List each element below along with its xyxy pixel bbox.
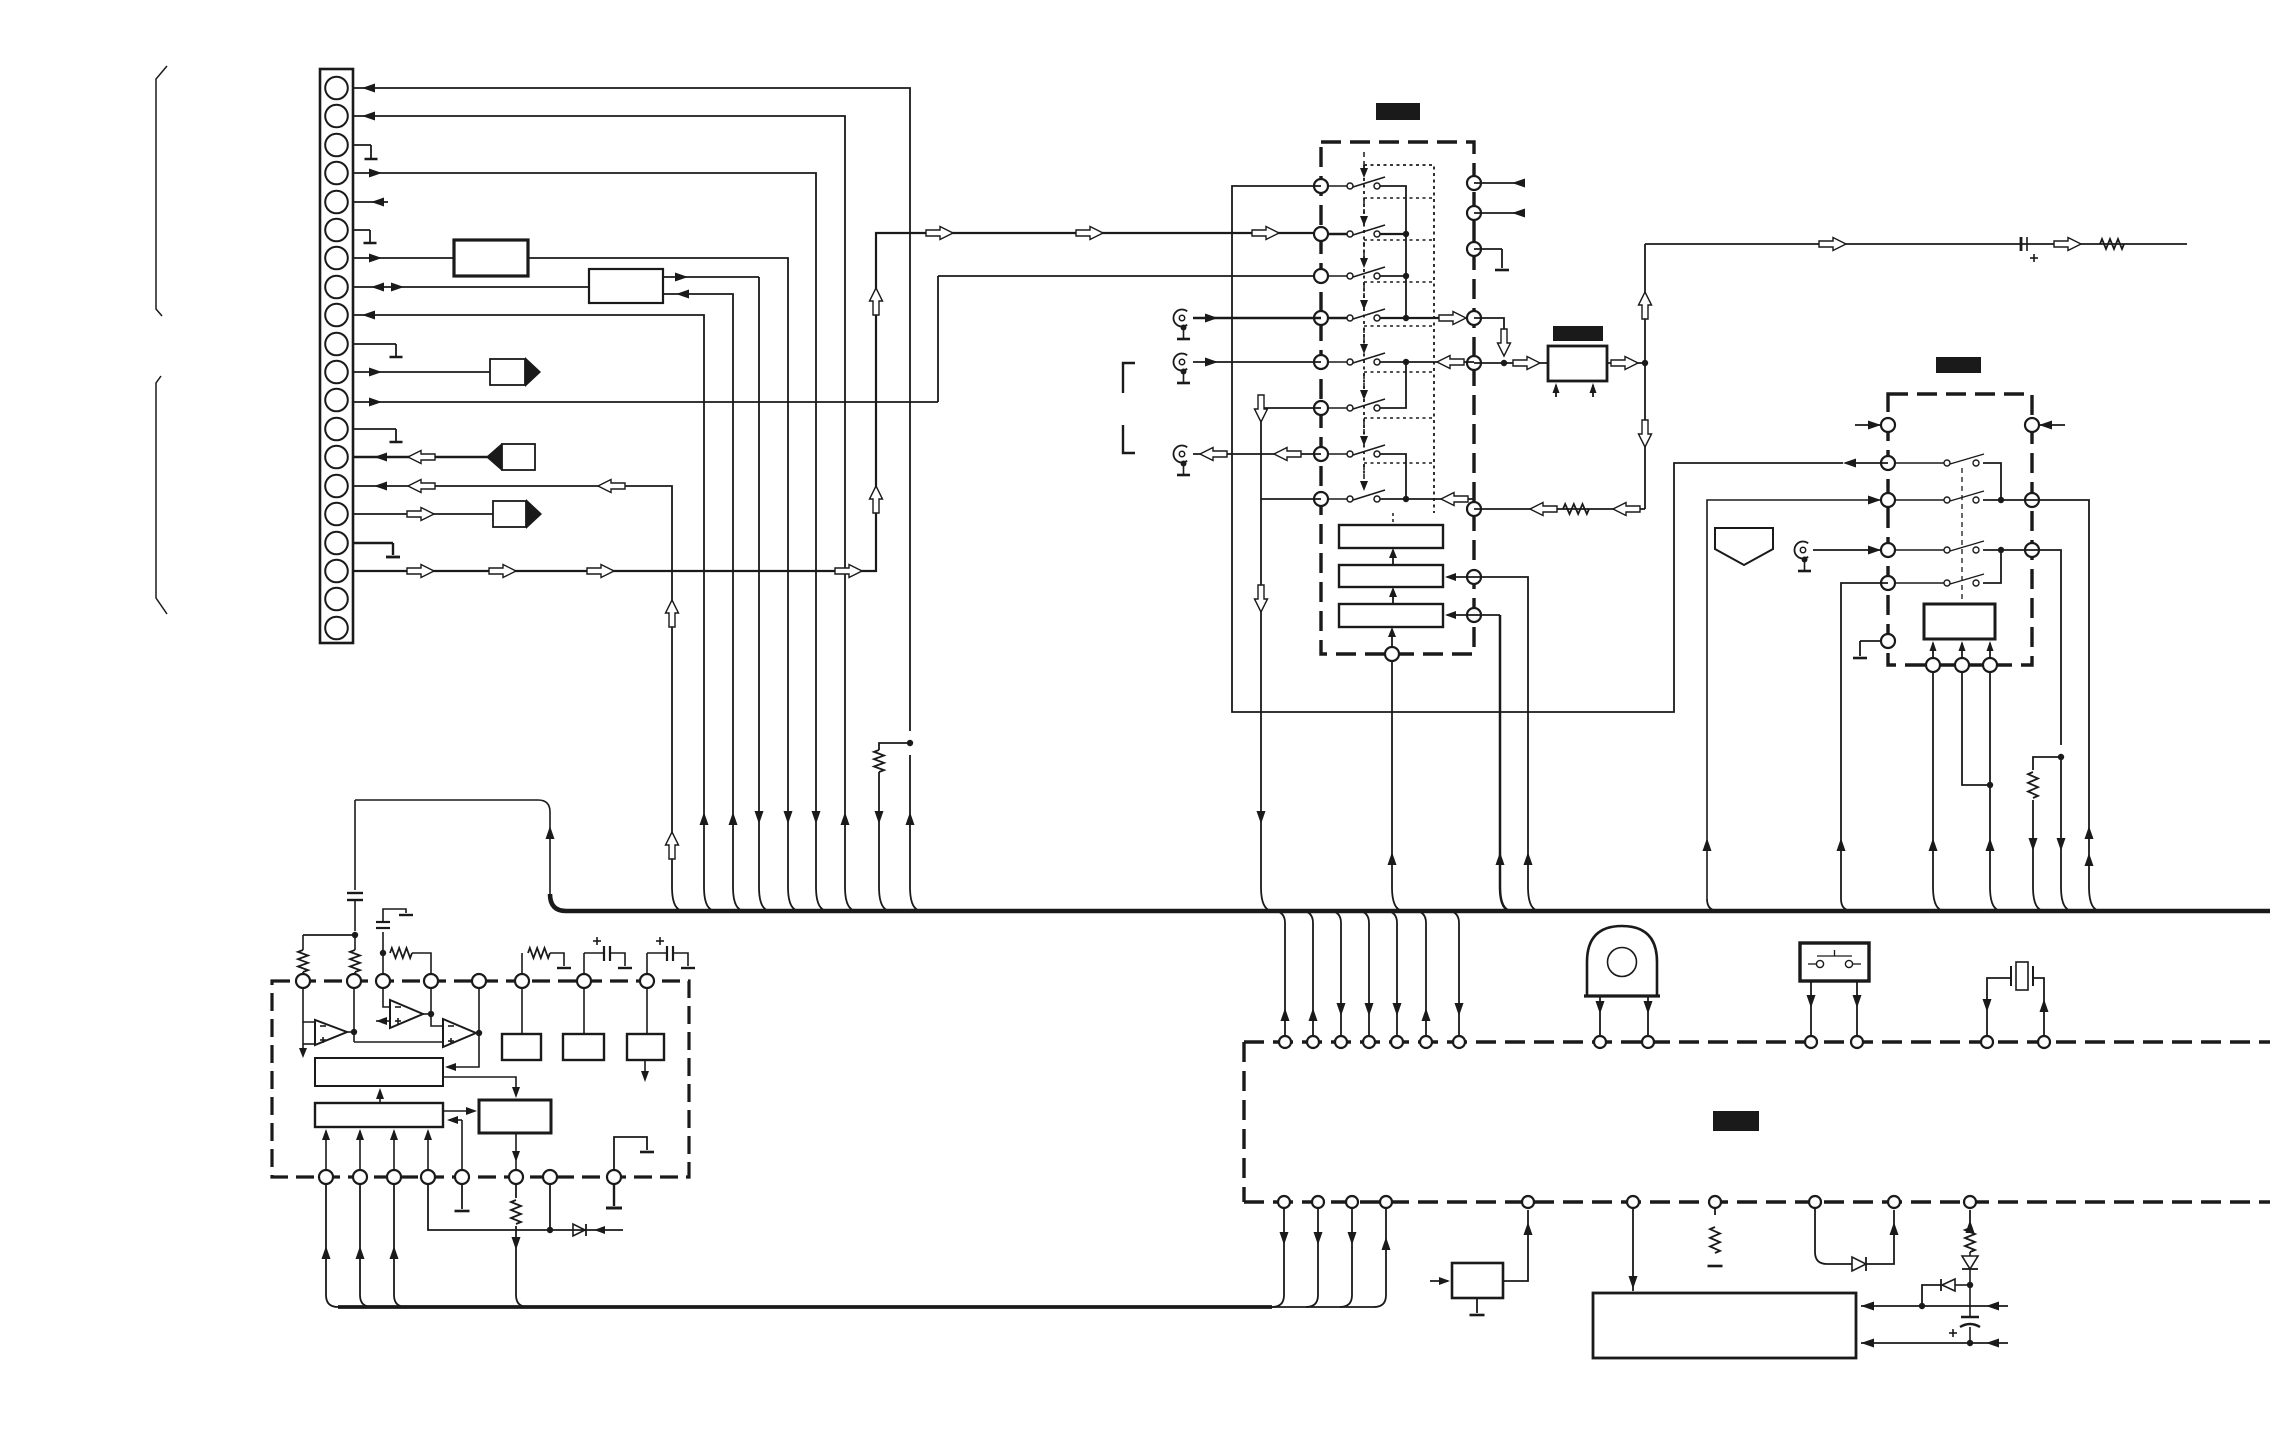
- wire fb to F2: [449, 1119, 462, 1121]
- switch S5 output: [1380, 361, 1406, 363]
- cap C405: [646, 953, 648, 974]
- wire pin4 to bus: [353, 173, 828, 911]
- arrow pin17 to B3: [1391, 630, 1393, 647]
- riser x1645: [1644, 244, 1646, 509]
- connector CN101 pin 9: [325, 304, 348, 327]
- IC201 left pin 3: [1314, 269, 1328, 283]
- control rung (dotted): [1364, 239, 1434, 241]
- switch control arrow (dashed): [1363, 374, 1365, 392]
- buffer box A1: [454, 240, 528, 276]
- node R4: [1987, 782, 1993, 788]
- switch S7 output: [1380, 454, 1406, 499]
- switch control arrow (dashed): [1363, 465, 1365, 483]
- zener D402: [1969, 1252, 1971, 1256]
- node N2: [1642, 360, 1648, 366]
- MCU top pin x1459: [1453, 1036, 1465, 1048]
- connector CN101 pin 3: [325, 134, 348, 157]
- node OP1 out: [351, 1029, 357, 1035]
- MCU top pin x1313: [1307, 1036, 1319, 1048]
- wire row583 feed: [1841, 583, 1888, 899]
- DCDC ctrl arrows: [1555, 385, 1557, 397]
- wire IC401 b6: [515, 1184, 517, 1198]
- IC301 control box: [1924, 604, 1995, 639]
- wire pin8 bidir: [353, 286, 589, 288]
- MCU bottom pin x1815: [1809, 1196, 1821, 1208]
- IC201 left pin 5: [1314, 355, 1328, 369]
- IC401 box G2: [563, 1034, 604, 1060]
- reset box U401: [1452, 1263, 1503, 1298]
- connector CN101 pin 11: [325, 361, 348, 384]
- IC201 left pin 1: [1314, 179, 1328, 193]
- wire IC401 b1: [326, 1184, 338, 1307]
- IC201 switch S7: [1328, 453, 1347, 455]
- wire R3 down: [2061, 757, 2073, 911]
- switch control arrow (dashed): [1363, 284, 1365, 302]
- wire MCU b4: [1374, 1208, 1386, 1307]
- arrow into top pin R: [2039, 424, 2065, 426]
- bus drop to MCU pin x1459: [1447, 911, 1459, 1035]
- gnd IC401 b8: [613, 1184, 615, 1206]
- IC301 switch row 463: [1895, 462, 1944, 464]
- diode D404: [573, 1224, 585, 1236]
- RCA jack J201: [1173, 310, 1187, 327]
- node J1 junction: [907, 740, 913, 746]
- IC201 body (dashed): [1321, 142, 1474, 654]
- IC401 box F2: [315, 1103, 443, 1127]
- MCU pin sw1: [1805, 1036, 1817, 1048]
- wire row550 out: [2032, 550, 2061, 745]
- wire row500 feed curve: [1707, 899, 1719, 911]
- wire J201 to pin4: [1193, 317, 1321, 319]
- IC201 right pin 9: [1467, 176, 1481, 190]
- IC301 left pin 1: [1881, 456, 1895, 470]
- wire D401 up: [1866, 1210, 1894, 1264]
- IC201 switch S3: [1328, 275, 1347, 277]
- switch S6 output: [1380, 362, 1406, 408]
- wire pin1 to OP1: [303, 988, 315, 1022]
- MCU top edge (dashed): [1244, 1040, 2270, 1043]
- MCU pin motor2: [1642, 1036, 1654, 1048]
- ground pin10: [353, 343, 396, 345]
- connector CN101 pin 15: [325, 475, 348, 498]
- wire pin8 to G3: [646, 988, 648, 1034]
- resistor R-branch: [874, 750, 884, 772]
- IC301 gnd pin: [1881, 634, 1895, 648]
- node R3: [2058, 754, 2064, 760]
- resistor R404: [350, 950, 360, 972]
- IC301 body (dashed): [1888, 394, 2032, 665]
- MCU bottom edge (dashed): [1244, 1200, 2270, 1203]
- resistor R202: [1563, 504, 1589, 514]
- IC301 control line (dashed): [1961, 468, 1963, 604]
- stub pin9: [1474, 182, 1523, 184]
- arrow into top pin L: [1855, 424, 1881, 426]
- resistor R401: [1710, 1227, 1720, 1253]
- IC201 left pin 6: [1314, 401, 1328, 415]
- node Z3: [1967, 1340, 1973, 1346]
- IC201 right pin 14: [1467, 502, 1481, 516]
- node S4: [1403, 315, 1409, 321]
- IC201 switch S4: [1328, 317, 1347, 319]
- IC401 top pin 3: [376, 974, 390, 988]
- RCA jack J202: [1173, 354, 1187, 371]
- wire DCDC out: [1607, 362, 1645, 364]
- connector CN101 pin 17: [325, 532, 348, 555]
- IC401 box F1: [315, 1058, 443, 1086]
- connector CN101 pin 2: [325, 105, 348, 128]
- wire diode loop: [1815, 1208, 1852, 1264]
- diode D403: [1955, 1284, 1970, 1286]
- wire pin12 to node: [1474, 318, 1504, 350]
- node Z2: [1919, 1303, 1925, 1309]
- node OP3 out: [476, 1030, 482, 1036]
- diode D401: [1852, 1257, 1866, 1271]
- DCDC box U202: [1548, 346, 1607, 381]
- control rung (dotted): [1364, 462, 1434, 464]
- resistor R406: [521, 953, 523, 974]
- IC301 switch row 583: [1895, 582, 1944, 584]
- bottom bus: [338, 1305, 1272, 1309]
- wire OP1 to OP3+: [354, 1041, 443, 1043]
- node A1: [352, 932, 358, 938]
- wire pin9 to bus: [353, 315, 716, 911]
- wire pin11 to plug: [353, 371, 490, 373]
- bus drop to MCU pin x1397: [1385, 911, 1397, 1035]
- lead R403: [302, 972, 304, 974]
- IC201 right pin 16: [1467, 608, 1481, 622]
- bracket mark 2: [1123, 425, 1135, 453]
- connector CN101 pin 16: [325, 503, 348, 526]
- MCU bottom pin x1970: [1964, 1196, 1976, 1208]
- IC201 left pin 4: [1314, 311, 1328, 325]
- IC201 right pin 11: [1467, 242, 1481, 256]
- IC301 bottom pin 1: [1926, 658, 1940, 672]
- MCU top pin x1397: [1391, 1036, 1403, 1048]
- MCU left edge (dashed): [1242, 1042, 1245, 1202]
- connector CN101 pin 7: [325, 247, 348, 270]
- bus drop to MCU pin x1341: [1329, 911, 1341, 1035]
- MCU pin xtal1: [1981, 1036, 1993, 1048]
- arrow B3 to B2: [1392, 590, 1394, 604]
- wire pin8 to drop: [1261, 498, 1321, 500]
- IC301 bottom pin 2: [1955, 658, 1969, 672]
- IC401 bottom pin 4: [421, 1170, 435, 1184]
- coupling cap C201: [2020, 237, 2023, 251]
- IC401 bottom pin 2: [353, 1170, 367, 1184]
- op-amp OP3: [443, 1019, 476, 1047]
- IC201 right pin 15: [1467, 570, 1481, 584]
- switch control arrow (dashed): [1363, 420, 1365, 438]
- crystal X1: [2016, 962, 2028, 990]
- row500 wire: [1983, 499, 2032, 501]
- control rung (dotted): [1364, 325, 1434, 327]
- connector CN101 pin 6: [325, 219, 348, 242]
- wire pin15: [353, 486, 684, 911]
- wire F1 to F3: [443, 1077, 516, 1094]
- switch control arrow (dashed): [1363, 242, 1365, 260]
- MCU bottom pin x1528: [1522, 1196, 1534, 1208]
- node D1: [547, 1227, 553, 1233]
- bus drop to MCU pin x1426: [1414, 911, 1426, 1035]
- IC401 bottom pin 1: [319, 1170, 333, 1184]
- wire pin14 from plug: [353, 456, 502, 458]
- node OP2 out: [428, 1011, 434, 1017]
- buffer box A2: [589, 269, 663, 303]
- IC301 right pin 550: [2025, 543, 2039, 557]
- cap C401 leads: [1969, 1285, 1971, 1317]
- MCU top pin x1341: [1335, 1036, 1347, 1048]
- cassette switch SW1 box: [1800, 943, 1869, 981]
- IC201 switch S2: [1328, 233, 1347, 235]
- row550 wire: [1983, 549, 2032, 551]
- IC401 box G3: [627, 1034, 664, 1060]
- gnd IC401 b5: [461, 1184, 463, 1209]
- resistor-gnd pin: [1714, 1208, 1716, 1215]
- stub pin10: [1474, 212, 1523, 214]
- wire IC401 b4: [428, 1184, 623, 1230]
- wire IC301 bpin2 link: [1962, 672, 1987, 785]
- cap C404: [583, 953, 585, 974]
- wire OP2 out: [423, 1013, 431, 1015]
- wire branch resistor: [2033, 757, 2061, 770]
- motor leg 1: [1599, 997, 1601, 1035]
- wire pin2 to bus: [353, 116, 857, 911]
- bus drop to MCU pin x1369: [1357, 911, 1369, 1035]
- supply line 2: [1861, 1342, 2008, 1344]
- ground pin13: [353, 428, 396, 430]
- arrow into U401: [1430, 1280, 1448, 1282]
- switch S3 output: [1380, 275, 1406, 277]
- IC301 left pin 3: [1881, 543, 1895, 557]
- op-amp OP2: [390, 1000, 423, 1028]
- MCU pin motor1: [1594, 1036, 1606, 1048]
- wire pin1 to bus: [353, 88, 910, 731]
- connector CN101 body: [320, 69, 353, 643]
- cap C401: [1961, 1316, 1979, 1319]
- wire pin15 drop: [1474, 577, 1540, 911]
- IC301 right pin 500: [2025, 493, 2039, 507]
- IC301 switch row 550: [1895, 549, 1944, 551]
- SW1 symbol: [1808, 963, 1816, 965]
- wire A1 cross: [303, 934, 355, 936]
- IC201 left pin 7: [1314, 447, 1328, 461]
- IC201 switch S1: [1328, 185, 1347, 187]
- SW1 leg2: [1856, 981, 1858, 1035]
- wire row463 exit: [1847, 462, 1888, 464]
- wire buffer A1 to bus: [528, 258, 800, 911]
- wire A2 out top: [663, 276, 759, 278]
- connector CN101 pin 19: [325, 588, 348, 611]
- IC201 register box B1: [1339, 525, 1443, 548]
- RCA jack J203: [1173, 445, 1187, 462]
- IC301 label: [1936, 357, 1981, 373]
- motor M1 body: [1587, 926, 1657, 996]
- node R2: [1998, 547, 2004, 553]
- wire J301 to pin: [1813, 549, 1881, 551]
- left bracket (lower harness brace): [156, 376, 167, 614]
- IC401 box F3: [479, 1100, 551, 1133]
- switch S1 output: [1380, 186, 1406, 318]
- switch S8 output: [1380, 498, 1406, 500]
- wire pin17 drop: [1392, 661, 1404, 911]
- wire IC301 bpin3 drop: [1990, 672, 2002, 911]
- ground pin11: [1474, 248, 1502, 250]
- IC401 bottom pin 8: [607, 1170, 621, 1184]
- supply line 1: [1861, 1305, 2008, 1307]
- arrow into RIC: [1843, 459, 1856, 468]
- control rung (dotted): [1364, 371, 1434, 373]
- IC301 top pin L: [1881, 418, 1895, 432]
- wire pin6 to G1: [521, 988, 523, 1034]
- RCA jack J301: [1794, 542, 1808, 559]
- IC401 bottom pin 6: [509, 1170, 523, 1184]
- IC301 top pin R: [2025, 418, 2039, 432]
- connector CN101 pin 20: [325, 617, 348, 640]
- cable plug P3 (right): [493, 501, 526, 527]
- IC401 bottom pin 3: [387, 1170, 401, 1184]
- arrows into F2: [325, 1131, 327, 1170]
- wire IC201 pin1 loop: [1232, 186, 1843, 712]
- wire pin18 to IC201: [353, 233, 1321, 571]
- wire pin16 drop: [1474, 614, 1500, 616]
- connector CN101 pin 18: [325, 560, 348, 583]
- wire pin5 stub: [353, 201, 388, 203]
- connector CN101 pin 14: [325, 446, 348, 469]
- control rung (dotted): [1364, 417, 1434, 419]
- connector CN101 pin 1: [325, 77, 348, 100]
- bus drop to MCU pin x1313: [1301, 911, 1313, 1035]
- wire pin16 to plug: [353, 513, 493, 515]
- bus drop to MCU pin x1285: [1273, 911, 1285, 1035]
- wire J202 to pin5: [1193, 361, 1321, 363]
- wire pin6 drop: [1261, 408, 1321, 911]
- MCU bottom pin x1386: [1380, 1196, 1392, 1208]
- IC301 bottom pin 3: [1983, 658, 1997, 672]
- IC201 left pin 2: [1314, 227, 1328, 241]
- IC401 top pin 4: [424, 974, 438, 988]
- arrow G3 down: [644, 1060, 646, 1078]
- wire MCU to PSU: [1632, 1208, 1634, 1291]
- main bus: [550, 894, 2270, 911]
- IC401 top pin 6: [515, 974, 529, 988]
- op-amp OP1: [315, 1020, 347, 1045]
- wire resistor branch: [879, 743, 910, 750]
- control rung (dotted): [1364, 281, 1434, 283]
- IC401 internal gnd: [614, 1137, 647, 1170]
- pentagon mark: [1715, 528, 1773, 565]
- cable plug P1 (right): [490, 359, 525, 385]
- node S5: [1403, 359, 1409, 365]
- switch control arrow (dashed): [1363, 328, 1365, 346]
- MCU top pin x1369: [1363, 1036, 1375, 1048]
- wire A2 pin: [382, 953, 384, 974]
- resistor R301: [2028, 772, 2038, 798]
- IC201 control ladder (dotted): [1364, 165, 1434, 513]
- bus riser left: [355, 800, 550, 894]
- IC201 right pin 10: [1467, 206, 1481, 220]
- MCU label: [1713, 1111, 1759, 1131]
- IC201 right pin 13: [1467, 356, 1481, 370]
- IC401 top pin 5: [472, 974, 486, 988]
- left bracket (upper harness brace): [156, 66, 167, 316]
- wire OP3 out: [476, 1032, 479, 1034]
- wire to IC201 pin3: [938, 275, 1321, 277]
- IC201 bottom pin 17: [1385, 647, 1399, 661]
- MCU top pin x1426: [1420, 1036, 1432, 1048]
- wire B3 input: [1447, 614, 1474, 616]
- node R1: [1998, 497, 2004, 503]
- MCU top pin x1285: [1279, 1036, 1291, 1048]
- connector CN101 pin 5: [325, 191, 348, 214]
- wire MCU b3: [1340, 1208, 1352, 1307]
- motor M1 rotor: [1608, 948, 1637, 977]
- node N1: [1501, 360, 1507, 366]
- MCU bottom pin x1633: [1627, 1196, 1639, 1208]
- IC401 top pin 8: [640, 974, 654, 988]
- IC201 right pin 12: [1467, 311, 1481, 325]
- wire pin14 feedback: [1474, 508, 1645, 510]
- IC401 box G1: [502, 1034, 541, 1060]
- ctrl arrows: [1932, 643, 1934, 658]
- MCU bottom pin x1894: [1888, 1196, 1900, 1208]
- IC201 register box B2: [1339, 565, 1443, 587]
- wire pin2 to OP1 out: [353, 988, 355, 1042]
- IC301 switch row 500: [1895, 499, 1944, 501]
- wire pin12: [353, 401, 938, 403]
- MCU bottom pin x1352: [1346, 1196, 1358, 1208]
- connector CN101 pin 13: [325, 418, 348, 441]
- power supply box PS1: [1593, 1293, 1856, 1358]
- MCU bottom pin x1318: [1312, 1196, 1324, 1208]
- SW1 leg1: [1810, 981, 1812, 1035]
- MCU pin xtal2: [2038, 1036, 2050, 1048]
- wire IC401 b7: [549, 1184, 551, 1230]
- MCU pin sw2: [1851, 1036, 1863, 1048]
- wire MCU b2: [1306, 1208, 1318, 1307]
- connector CN101 pin 10: [325, 333, 348, 356]
- IC401 top pin 1: [296, 974, 310, 988]
- wire IC401 b2: [360, 1184, 372, 1307]
- wire OP1 out: [347, 1031, 354, 1033]
- node S2: [1403, 231, 1409, 237]
- wire MCU b1: [1272, 1208, 1284, 1307]
- wire pin7 to G2: [583, 988, 585, 1034]
- resistor R201: [2100, 239, 2124, 249]
- wire F3 down: [515, 1133, 517, 1170]
- IC201 register box B3: [1339, 604, 1443, 627]
- wire OP2+ arrow: [376, 1020, 390, 1022]
- bracket mark 1: [1123, 363, 1135, 393]
- arrow B2 to B1: [1392, 551, 1394, 565]
- cable plug P2 (left): [502, 444, 535, 470]
- wire pin5 OP3 out: [447, 988, 479, 1067]
- wire B2 input: [1447, 576, 1474, 578]
- cap C402: [354, 800, 356, 890]
- cap C403: [382, 932, 384, 953]
- wire zener chain: [1969, 1210, 1971, 1228]
- connector CN101 pin 4: [325, 162, 348, 185]
- IC201 left pin 8: [1314, 492, 1328, 506]
- IC401 body (dashed): [272, 981, 689, 1177]
- node Z1: [1967, 1282, 1973, 1288]
- DCDC label: [1553, 326, 1603, 341]
- wire pin13 to DCDC: [1474, 362, 1504, 364]
- row463 link: [1983, 463, 2001, 497]
- wire c12 riser: [937, 276, 939, 402]
- IC301 left pin 4: [1881, 576, 1895, 590]
- IC301 gnd stub: [1860, 640, 1881, 642]
- resistor R403: [298, 950, 308, 972]
